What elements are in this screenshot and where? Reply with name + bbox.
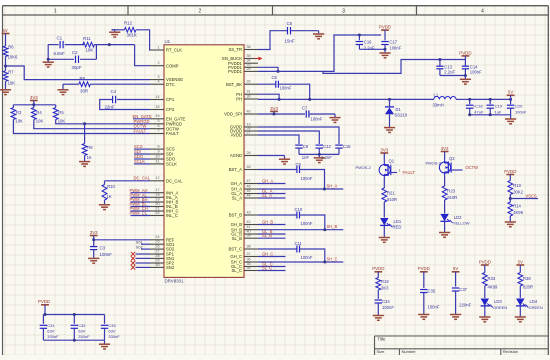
pin 27 AVDD (right) (244, 134, 258, 136)
svg-text:46: 46 (247, 184, 251, 188)
svg-text:18: 18 (155, 193, 159, 197)
svg-text:30: 30 (247, 94, 251, 98)
svg-text:INL_C: INL_C (166, 213, 178, 218)
svg-text:330nF: 330nF (47, 334, 59, 339)
svg-text:40: 40 (247, 109, 251, 113)
svg-text:BST_C: BST_C (229, 247, 243, 252)
ground for LD4 (515, 316, 526, 318)
svg-text:R38: R38 (523, 276, 531, 281)
resistor R14 4K99 (508, 202, 513, 216)
net label EN_GATE (133, 118, 150, 120)
svg-text:R33: R33 (488, 276, 496, 281)
svg-text:27: 27 (247, 130, 251, 134)
ground for C35 (418, 314, 429, 316)
power PVDD for bulk caps (41, 304, 49, 306)
svg-text:COMP: COMP (166, 63, 179, 68)
svg-text:47: 47 (247, 179, 251, 183)
svg-text:C8: C8 (303, 144, 309, 149)
ground for C37 (450, 314, 461, 316)
svg-text:8: 8 (157, 145, 159, 149)
svg-text:R10: R10 (107, 184, 115, 189)
svg-text:16: 16 (155, 114, 159, 118)
svg-text:21: 21 (155, 206, 159, 210)
svg-text:LD4: LD4 (530, 299, 538, 304)
net label SL_A (258, 197, 286, 199)
pin 48 BST_A (right) (244, 169, 258, 171)
svg-text:SO2: SO2 (136, 245, 143, 249)
svg-text:PVDD: PVDD (379, 25, 391, 30)
svg-text:PMOS-2: PMOS-2 (356, 165, 372, 170)
wire VSENSE from divider to pin 3 (6, 66, 151, 80)
pin 7 FAULT (left) (150, 133, 164, 135)
svg-text:301K: 301K (127, 33, 137, 38)
svg-text:PVDD: PVDD (479, 259, 491, 264)
wire GVDD to C15 (258, 127, 339, 144)
net label SCS (134, 148, 150, 150)
svg-text:C32: C32 (78, 323, 86, 328)
svg-text:DRV8301: DRV8301 (165, 279, 185, 284)
pin 19 INH_B (left) (150, 201, 164, 203)
svg-text:4: 4 (157, 80, 159, 84)
svg-text:SL_A: SL_A (232, 196, 242, 201)
pin 31 PH (right) (244, 93, 258, 95)
no-connect X on SN2 (136, 266, 151, 268)
svg-text:PVDD: PVDD (38, 299, 50, 304)
capacitor C2 30pF (48, 58, 74, 60)
pin 2 COMP (left) (150, 65, 164, 67)
svg-text:SS_TR: SS_TR (229, 47, 243, 52)
svg-text:4K99: 4K99 (513, 210, 523, 215)
svg-text:2.2uF: 2.2uF (444, 70, 455, 75)
svg-text:Number: Number (402, 349, 417, 354)
pin 6 OCTW (left) (150, 128, 164, 130)
svg-text:100nF: 100nF (389, 46, 401, 51)
wire R12 to RT_CLK pin 1 (136, 30, 150, 50)
svg-text:33mH: 33mH (433, 103, 444, 108)
capacitor C17 100nF (384, 35, 386, 40)
ground for C13/C14 (460, 78, 471, 80)
svg-text:CP1: CP1 (166, 97, 175, 102)
svg-text:C31: C31 (47, 323, 55, 328)
svg-text:11: 11 (156, 159, 160, 163)
wire R4 to OCTW pin (34, 120, 150, 129)
capacitor C13 2.2uF (438, 58, 441, 61)
ground for C34 (373, 315, 384, 317)
svg-text:C9: C9 (296, 162, 302, 167)
pin 34 PVDD1 (right) (244, 62, 258, 64)
svg-text:17: 17 (155, 188, 159, 192)
svg-text:SO1: SO1 (136, 240, 143, 244)
pin 18 INL_A (left) (150, 196, 164, 198)
resistor R21 910R (383, 178, 385, 188)
svg-text:C10: C10 (295, 207, 303, 212)
svg-text:330nF: 330nF (108, 334, 120, 339)
svg-text:PWM_CL: PWM_CL (130, 211, 148, 216)
svg-text:Q1: Q1 (389, 159, 395, 164)
svg-text:1: 1 (157, 45, 159, 49)
pin 22 INL_C (left) (150, 215, 164, 217)
capacitor C34 100nF (375, 299, 382, 301)
svg-text:U1: U1 (165, 39, 171, 44)
LED LD1 RED (380, 218, 388, 225)
svg-text:5V: 5V (2, 28, 7, 33)
net label VSCS (510, 198, 538, 200)
net label PWM_BH (131, 201, 151, 203)
svg-text:SCLK: SCLK (166, 162, 177, 167)
svg-text:BST_B: BST_B (229, 213, 242, 218)
svg-text:RT_CLK: RT_CLK (166, 48, 182, 53)
pin 16 EN_GATE (left) (150, 118, 164, 120)
capacitor C14 100nF (464, 60, 466, 67)
resistor R10 1K (104, 181, 106, 185)
svg-text:100nF: 100nF (301, 176, 313, 181)
net stub SO1 (141, 243, 150, 245)
wire REF to pin 24 (94, 239, 150, 241)
svg-text:SCLK: SCLK (134, 159, 145, 164)
svg-text:44: 44 (247, 193, 251, 197)
svg-text:34: 34 (247, 266, 251, 270)
svg-text:GREEN: GREEN (493, 305, 507, 310)
svg-text:24: 24 (155, 235, 159, 239)
resistor R13 30K2 (508, 181, 513, 195)
svg-text:100nF: 100nF (382, 305, 394, 310)
svg-text:FAULT: FAULT (166, 131, 179, 136)
svg-text:10K6: 10K6 (8, 55, 18, 60)
ground for bulk caps (99, 343, 110, 345)
no-connect X on SN1 (136, 257, 151, 259)
net label DC_CAL and wire to R10 (105, 180, 151, 182)
capacitor C33 330nF 63V (104, 315, 106, 324)
bulk cap top rail (43, 314, 104, 316)
svg-text:47uF: 47uF (474, 110, 484, 115)
svg-text:4K99: 4K99 (488, 285, 498, 290)
svg-text:330nF: 330nF (78, 334, 90, 339)
pin 34 SL_C (right) (244, 270, 258, 272)
capacitor C10 100nF bootstrap B (258, 214, 297, 216)
svg-text:FAULT: FAULT (134, 129, 147, 134)
pin 36 SH_C (right) (244, 261, 258, 263)
svg-text:R12: R12 (124, 20, 133, 25)
svg-text:YELLOW: YELLOW (453, 221, 470, 226)
resistor R12 301K (112, 29, 125, 31)
net label SDI (134, 153, 150, 155)
resistor R5 10K (55, 105, 57, 108)
svg-text:OCTW: OCTW (466, 165, 479, 170)
svg-text:3V3: 3V3 (30, 95, 38, 100)
svg-text:CP2: CP2 (166, 107, 175, 112)
pullup rail (13, 104, 55, 106)
wire C13/C14 bottoms (440, 75, 466, 77)
net label PWM_CH (131, 210, 151, 212)
pin 9 SDI (left) (150, 153, 164, 155)
pin 5 PWRGD (left) (150, 123, 164, 125)
pin 36 SS_TR (right) (244, 49, 258, 51)
svg-text:3V3: 3V3 (441, 146, 449, 151)
pin 47 GH_A (right) (244, 183, 258, 185)
svg-text:2: 2 (157, 61, 159, 65)
svg-text:C37: C37 (459, 287, 467, 292)
capacitor C1 6.8nF (48, 44, 58, 46)
svg-text:C5: C5 (287, 21, 293, 26)
svg-text:5: 5 (157, 119, 159, 123)
svg-text:PVDD1: PVDD1 (228, 69, 243, 74)
svg-text:R23: R23 (447, 189, 455, 194)
resistor R11 18K (65, 44, 84, 46)
svg-text:Title: Title (378, 337, 386, 342)
power PVDD for divider (506, 174, 514, 176)
svg-text:15nF: 15nF (285, 39, 295, 44)
svg-text:R14: R14 (513, 204, 521, 209)
svg-text:C12: C12 (323, 144, 331, 149)
wire PVDD1 pin 33 (258, 67, 278, 71)
svg-text:32: 32 (247, 80, 251, 84)
LED LD4 GREEN (516, 299, 524, 306)
svg-text:29: 29 (155, 258, 159, 262)
net label GH_C (258, 256, 286, 258)
pin 30 PH (right) (244, 98, 258, 100)
pin 33 PVDD1 (right) (244, 66, 258, 68)
svg-text:C17: C17 (389, 40, 397, 45)
svg-text:PMOS-2: PMOS-2 (426, 161, 442, 166)
capacitor C20 100nF (510, 99, 512, 104)
svg-text:3V3: 3V3 (90, 230, 98, 235)
svg-text:30K2: 30K2 (513, 190, 523, 195)
svg-text:C19: C19 (495, 104, 503, 109)
svg-text:100nF: 100nF (311, 116, 323, 121)
pin 46 SH_A (right) (244, 188, 258, 190)
svg-text:100nF: 100nF (428, 305, 440, 310)
transistor Q1 PMOS-2 (379, 164, 390, 175)
svg-text:10K: 10K (36, 118, 44, 123)
pin 45 GL_A (right) (244, 193, 258, 195)
svg-text:C34: C34 (382, 299, 390, 304)
net label GL_A (258, 193, 286, 195)
svg-text:100nF: 100nF (301, 221, 313, 226)
ground for AGND (279, 158, 290, 160)
svg-text:35: 35 (247, 54, 251, 58)
pin 29 SP2 (left) (150, 262, 164, 264)
pin 30 SN2 (left) (150, 266, 164, 268)
svg-text:28: 28 (155, 254, 159, 258)
ground for C3 (88, 257, 99, 259)
wire R6-R7 junction (5, 57, 7, 71)
svg-text:39: 39 (247, 234, 251, 238)
power 3V3 for Q2 (441, 151, 449, 153)
svg-text:AGND: AGND (230, 153, 242, 158)
wire C2 branch up to COMP rail (95, 45, 97, 60)
pin 1 RT_CLK (left) (150, 49, 164, 51)
pin 35 EN_BUCK (right) (244, 58, 258, 60)
svg-text:1nF: 1nF (302, 155, 310, 160)
ground for LD1 (379, 237, 390, 239)
pin 44 SL_A (right) (244, 197, 258, 199)
svg-text:3: 3 (157, 75, 159, 79)
svg-text:C2: C2 (72, 50, 78, 55)
svg-text:GH_A: GH_A (231, 181, 243, 186)
wire AGND to ground (258, 155, 285, 157)
svg-text:10K: 10K (15, 118, 23, 123)
svg-text:100nF: 100nF (515, 110, 527, 115)
svg-text:36: 36 (247, 257, 251, 261)
ground for C1/C2 network (43, 61, 54, 63)
net label GH_A (258, 183, 286, 185)
svg-text:3V3: 3V3 (380, 147, 388, 152)
pin 14 CP1 (left) (150, 99, 164, 101)
pin 35 GL_C (right) (244, 266, 258, 268)
svg-text:220nF: 220nF (459, 303, 471, 308)
svg-text:C6: C6 (272, 75, 278, 80)
cap bottom rail (299, 153, 339, 155)
net label GH_B (258, 224, 286, 226)
svg-text:63V: 63V (47, 329, 54, 334)
svg-text:20: 20 (155, 202, 159, 206)
capacitor C31 330nF 63V (42, 315, 44, 324)
net label PWM_BL (131, 206, 151, 208)
wire PVDD1 pin 29 to PVDD rail (258, 35, 381, 71)
capacitor C18 47uF (469, 99, 471, 104)
pin 10 SDO (left) (150, 158, 164, 160)
power PVDD rail (381, 29, 389, 31)
pin 4 DTC (left) (150, 83, 164, 85)
ground for LD3 (479, 316, 490, 318)
net SH_B wire (258, 229, 343, 231)
pin 32 BST_BK (right) (244, 83, 258, 85)
svg-text:FAULT: FAULT (403, 170, 416, 175)
svg-text:R9: R9 (80, 76, 86, 81)
wire cap bottoms (359, 48, 385, 50)
capacitor C12 2.2nF (316, 144, 323, 146)
svg-text:30R: 30R (80, 88, 88, 93)
power PVDD at C13/C14 (462, 55, 470, 57)
power PVDD for R19/C34 (374, 271, 382, 273)
svg-text:R6: R6 (8, 45, 14, 50)
pin 40 GL_B (right) (244, 233, 258, 235)
capacitor C5 15nF on SS_TR (258, 31, 287, 50)
net stub SO2 (141, 248, 150, 250)
no-ERC arrow on EN_BUCK (255, 58, 260, 60)
transistor Q2 PMOS-2 (439, 162, 450, 173)
svg-text:10: 10 (155, 154, 159, 158)
pin 17 INH_A (left) (150, 192, 164, 194)
pin 12 DC_CAL (left) (150, 180, 164, 182)
wire gate to OCTW (451, 169, 462, 171)
svg-text:D1: D1 (396, 107, 402, 112)
pin 3 VSENSE (left) (150, 79, 164, 81)
svg-text:6.8nF: 6.8nF (54, 51, 66, 56)
svg-text:R5: R5 (58, 110, 64, 115)
svg-text:GH_C: GH_C (230, 254, 242, 259)
svg-text:AVDD: AVDD (231, 133, 242, 138)
power PVDD for LD3 (481, 264, 489, 266)
svg-text:5V: 5V (518, 259, 523, 264)
LED LD2 YELLOW (440, 214, 448, 221)
node COMP junction (108, 43, 111, 46)
svg-text:22: 22 (155, 211, 159, 215)
svg-text:1: 1 (399, 169, 401, 173)
resistor R6 10K6 (3, 46, 8, 57)
svg-text:GH_C: GH_C (262, 251, 273, 256)
resistor R8 1K pulldown (83, 122, 86, 125)
svg-text:C33: C33 (108, 323, 116, 328)
svg-text:12: 12 (155, 176, 159, 180)
svg-text:SN2: SN2 (166, 265, 175, 270)
svg-text:PVDD: PVDD (372, 266, 384, 271)
svg-text:R19: R19 (381, 279, 389, 284)
svg-text:SL_C: SL_C (262, 265, 272, 270)
svg-text:RED: RED (393, 225, 402, 230)
ground for bypass caps (314, 157, 325, 159)
capacitor C11 100nF bootstrap C (258, 248, 297, 250)
wire PH net (258, 98, 434, 100)
net label PWM_AH (131, 192, 151, 194)
ground for C16/C17 (379, 52, 390, 54)
svg-text:4: 4 (481, 8, 484, 14)
ground for divider (505, 221, 516, 223)
pin 15 CP2 (left) (150, 109, 164, 111)
pin 26 AGND (right) (244, 155, 258, 157)
svg-text:29: 29 (247, 67, 251, 71)
ground for C7 (329, 117, 340, 119)
svg-text:Q2: Q2 (449, 156, 455, 161)
pin 29 PVDD1 (right) (244, 70, 258, 72)
capacitor C4 22nF across CP1/CP2 (117, 99, 150, 101)
resistor R23 910R (444, 176, 446, 187)
net label GL_C (258, 266, 286, 268)
svg-text:820R: 820R (523, 285, 533, 290)
net label SDO (134, 158, 150, 160)
net label GL_B (258, 233, 286, 235)
svg-text:Size: Size (377, 349, 386, 354)
svg-text:C1: C1 (57, 35, 63, 40)
svg-text:SH_C: SH_C (327, 257, 338, 262)
resistor R3 10K (12, 105, 14, 108)
svg-text:100nF: 100nF (301, 255, 313, 260)
svg-text:18K: 18K (86, 48, 94, 53)
svg-text:C35: C35 (428, 289, 436, 294)
power PVDD for C35 (420, 271, 428, 273)
svg-text:BST_BK: BST_BK (226, 82, 242, 87)
svg-text:SS210: SS210 (395, 113, 408, 118)
pin 43 BST_B (right) (244, 214, 258, 216)
svg-text:R11: R11 (83, 36, 91, 41)
power 5V (2, 33, 10, 35)
svg-text:10K: 10K (58, 118, 66, 123)
wire PH pin 31 (258, 94, 279, 99)
wire COMP network to pin 2 (135, 45, 150, 66)
power 3V3 on VDD_SPI (258, 113, 305, 115)
op-amp U1 DRV8301 gate driver IC body (164, 45, 244, 278)
pin 40 VDD_SPI (right) (244, 113, 258, 115)
svg-text:1: 1 (54, 8, 57, 14)
svg-text:PH: PH (236, 97, 242, 102)
buck output ground rail (470, 114, 511, 116)
pin 28 SN1 (left) (150, 257, 164, 259)
svg-text:63V: 63V (108, 329, 115, 334)
wire DVDD to C12 (258, 131, 319, 144)
ground for D1 (384, 127, 395, 129)
svg-text:GH_A: GH_A (262, 178, 273, 183)
ground for R9 (57, 89, 68, 91)
svg-text:DTC: DTC (166, 82, 175, 87)
svg-text:100nF: 100nF (280, 86, 292, 91)
ground for R8 (79, 161, 90, 163)
power 3V3 for Q1 (380, 152, 388, 154)
capacitor C19 1uF (489, 99, 491, 104)
no-connect X on SP2 (136, 262, 151, 264)
ground for R7 (0, 89, 11, 91)
svg-text:31: 31 (247, 90, 251, 94)
svg-text:SH_B: SH_B (327, 224, 338, 229)
